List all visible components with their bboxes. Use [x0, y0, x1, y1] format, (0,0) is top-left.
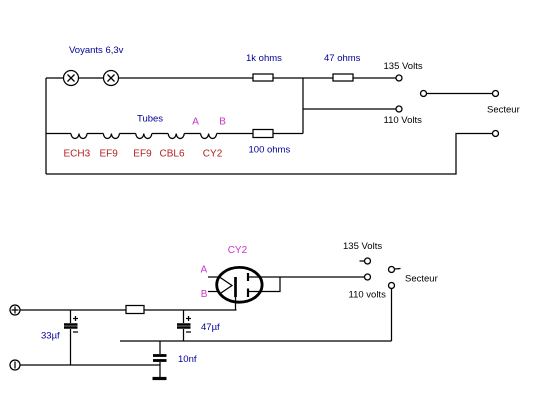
heater CBL6: [168, 134, 184, 139]
capacitor C 33uf: [64, 310, 78, 365]
resistor R 100 ohms: [253, 130, 273, 138]
svg-text:Secteur: Secteur: [487, 105, 520, 116]
tube CY2 envelope: [217, 267, 262, 302]
label 135 Volts top: [384, 61, 423, 72]
wire plus rail right: [144, 309, 237, 311]
polarity minus 47uf: [186, 331, 191, 333]
wire: [87, 133, 103, 135]
svg-text:110 volts: 110 volts: [349, 290, 387, 301]
svg-text:110 Volts: 110 Volts: [384, 115, 423, 126]
svg-text:B: B: [219, 117, 226, 128]
wire: [184, 133, 200, 135]
capacitor C 47uf: [177, 310, 191, 341]
svg-text:A: A: [201, 265, 208, 276]
svg-text:100 ohms: 100 ohms: [249, 145, 291, 156]
terminal 110 volts bottom: [365, 274, 371, 280]
wire pin A lead: [208, 276, 220, 278]
wire secteur to bottom rail: [46, 134, 493, 175]
resistor R 47 ohms: [333, 74, 353, 81]
tube plate top: [247, 273, 249, 281]
terminal 135 volts bottom: [360, 258, 371, 264]
wire plus rail: [20, 309, 126, 311]
label CY2 tube: [228, 245, 248, 256]
wire: [152, 133, 168, 135]
label 100 ohms: [249, 145, 291, 156]
wire 110V tap: [303, 108, 396, 110]
chassis ground bar: [153, 377, 167, 380]
lamp voyant 2: [104, 71, 119, 86]
wire minus rail: [20, 364, 160, 366]
svg-text:33µf: 33µf: [41, 331, 60, 342]
svg-text:CY2: CY2: [203, 149, 223, 160]
node B bottom: [201, 289, 208, 300]
wire heater rail start: [46, 133, 71, 135]
terminal secteur bottom: [389, 283, 395, 289]
label 110 volts bottom: [349, 290, 387, 301]
label CBL6: [160, 149, 185, 160]
svg-text:CY2: CY2: [228, 245, 248, 256]
label Voyants 6,3v: [69, 45, 124, 56]
label ECH3: [64, 149, 91, 160]
wire 1k to 47 ohms: [273, 77, 333, 79]
wire pin B lead: [208, 291, 219, 293]
heater EF9 first: [103, 134, 119, 139]
svg-text:CBL6: CBL6: [160, 149, 185, 160]
svg-text:ECH3: ECH3: [64, 149, 91, 160]
svg-text:47 ohms: 47 ohms: [324, 53, 361, 64]
wire left vertical top circuit: [45, 78, 47, 174]
svg-text:Tubes: Tubes: [137, 114, 163, 125]
heater EF9 second: [136, 134, 152, 139]
wire lamp 2 to resistor 1k: [119, 77, 253, 79]
svg-text:EF9: EF9: [133, 149, 152, 160]
wire 47 ohms to 135V terminal: [353, 77, 396, 79]
terminal plus bottom: [10, 305, 20, 315]
wire heater rail to 100 ohms: [217, 133, 253, 135]
label 10nf: [178, 354, 197, 365]
svg-text:135 Volts: 135 Volts: [343, 241, 382, 252]
switch secteur bottom wiper: [389, 267, 401, 273]
capacitor C 10nf: [153, 341, 167, 377]
wire secteur to middle rail: [391, 289, 393, 342]
wire plate bottom lead loop: [248, 277, 280, 292]
terminal secteur line top: [493, 131, 499, 137]
polarity minus 33uf: [73, 331, 78, 333]
heater CY2: [201, 134, 217, 139]
tube filament chevron: [220, 277, 233, 294]
lamp voyant 1: [64, 71, 79, 86]
wire 100 ohms to junction: [273, 133, 303, 135]
svg-text:10nf: 10nf: [178, 354, 197, 365]
label 1k ohms: [246, 53, 282, 64]
wire junction vertical: [302, 78, 304, 134]
polarity plus 33uf: [73, 316, 78, 321]
label 33uf: [41, 331, 60, 342]
svg-text:47µf: 47µf: [201, 322, 220, 333]
svg-text:A: A: [192, 117, 199, 128]
terminal neutral bottom: [10, 360, 20, 370]
svg-text:B: B: [201, 289, 208, 300]
label CY2 heater: [203, 149, 223, 160]
switch secteur top wiper: [421, 91, 499, 97]
label 110 Volts top: [384, 115, 423, 126]
wire middle rail: [120, 340, 392, 342]
heater ECH3: [71, 134, 87, 139]
terminal 135 Volts top: [396, 75, 402, 81]
label Secteur bottom: [405, 274, 438, 285]
label EF9 first: [100, 149, 119, 160]
wire: [119, 133, 135, 135]
svg-text:EF9: EF9: [100, 149, 119, 160]
wire top rail to lamp 1: [46, 77, 63, 79]
label 135 Volts bottom: [343, 241, 382, 252]
wire cathode to plus rail: [235, 297, 237, 310]
terminal 110 Volts top: [396, 106, 402, 112]
tube plate bottom: [247, 289, 249, 298]
label EF9 second: [133, 149, 152, 160]
label Secteur top: [487, 105, 520, 116]
label 47 ohms: [324, 53, 361, 64]
node A bottom: [201, 265, 208, 276]
node B top: [219, 117, 226, 128]
tube cathode bar: [234, 277, 237, 297]
label 47uf: [201, 322, 220, 333]
polarity plus 47uf: [186, 316, 191, 321]
node A top: [192, 117, 199, 128]
svg-text:135 Volts: 135 Volts: [384, 61, 423, 72]
wire plate top lead to 110 volts terminal: [248, 276, 365, 278]
svg-text:Voyants 6,3v: Voyants 6,3v: [69, 45, 124, 56]
svg-text:Secteur: Secteur: [405, 274, 438, 285]
svg-text:1k ohms: 1k ohms: [246, 53, 282, 64]
resistor filter: [126, 306, 144, 314]
resistor R 1k ohms: [253, 74, 273, 81]
label Tubes: [137, 114, 163, 125]
wire between lamps: [79, 77, 103, 79]
